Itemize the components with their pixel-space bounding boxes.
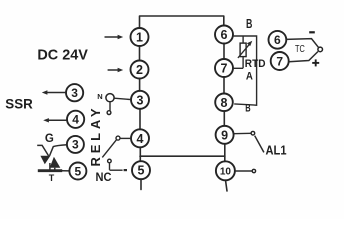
wire: terminal 8 to terminal 9	[223, 111, 225, 126]
SSR output terminal 4	[67, 111, 84, 128]
terminal 2	[131, 61, 149, 79]
wire: stub below terminal 10	[226, 180, 228, 191]
AL1 lower contact ring	[252, 169, 255, 172]
wire: terminal 3 to terminal 4	[139, 109, 141, 130]
svg-text:TC: TC	[295, 44, 305, 55]
wire: terminal 10 to AL1 contact	[235, 170, 252, 172]
svg-text:3: 3	[137, 93, 144, 107]
svg-text:9: 9	[221, 128, 228, 142]
wire: terminal 2 to terminal 3	[139, 79, 141, 92]
wire: top link terminal 1 to terminal 6	[140, 16, 224, 28]
svg-text:7: 7	[221, 62, 228, 76]
SCR cathode bar	[38, 169, 62, 172]
wire: thermocouple positive lead	[289, 52, 318, 62]
wire: RTD element top lead	[242, 36, 244, 43]
arrow: DC supply into terminal 2	[108, 68, 124, 73]
SCR symbol triangle left	[40, 156, 50, 164]
SCR symbol triangle right	[50, 157, 61, 168]
relay pivot contact	[116, 136, 120, 140]
SSR output terminal 3	[66, 84, 83, 101]
svg-text:2: 2	[136, 63, 143, 77]
wire: RTD element bottom lead	[242, 57, 244, 69]
RTD variable arrow	[238, 41, 252, 58]
terminal 4	[131, 129, 149, 147]
wire: stub below terminal 5	[140, 179, 142, 190]
svg-text:5: 5	[75, 164, 82, 178]
wire: SCR cathode to circle 5	[62, 170, 70, 172]
NO fixed contact dot	[107, 111, 111, 115]
svg-text:4: 4	[137, 132, 144, 146]
wire: terminal 9 to terminal 10	[224, 144, 226, 162]
thermocouple terminal 7	[271, 52, 289, 70]
wire: SCR center lead	[49, 163, 51, 170]
wire: terminal 9 to AL1 contact	[234, 132, 251, 134]
label plus	[312, 59, 319, 66]
svg-text:G: G	[45, 133, 54, 145]
svg-text:10: 10	[220, 166, 232, 177]
label minus	[309, 31, 315, 33]
svg-text:4: 4	[72, 113, 79, 127]
terminal 7	[215, 59, 233, 77]
arrow: SSR drive from terminal 3	[42, 90, 66, 94]
terminal 3	[131, 91, 149, 109]
SCR gate terminal 3	[67, 136, 84, 153]
terminal 8	[215, 94, 233, 112]
svg-text:3: 3	[72, 138, 79, 152]
svg-text:B: B	[245, 103, 251, 115]
wire: SCR anode lead to circle 3	[50, 145, 67, 156]
svg-text:A: A	[246, 70, 253, 82]
svg-text:3: 3	[71, 86, 78, 100]
AL1 switch blade	[255, 136, 264, 153]
svg-text:AL1: AL1	[266, 142, 287, 157]
terminal 6	[215, 26, 233, 44]
svg-text:SSR: SSR	[5, 95, 33, 111]
svg-text:6: 6	[274, 33, 281, 47]
svg-text:NC: NC	[96, 172, 112, 184]
wire: terminal 1 to terminal 2	[139, 46, 141, 61]
wire: terminal 7 to RTD A lead	[233, 67, 243, 69]
svg-text:T: T	[49, 173, 55, 183]
wire: NO contact to terminal 3	[114, 98, 131, 99]
wire: terminal 7 to terminal 8	[223, 77, 225, 94]
svg-text:RTD: RTD	[245, 58, 266, 70]
svg-text:B: B	[246, 17, 252, 31]
wire: terminal 6 to terminal 7	[223, 43, 225, 59]
RTD sensor box	[234, 36, 257, 105]
wire: SCR lower lead	[54, 168, 56, 171]
svg-text:DC 24V: DC 24V	[37, 47, 88, 64]
wire: cross link (left column to right column)	[140, 155, 225, 157]
arrow: DC supply into terminal 1	[105, 35, 124, 40]
svg-text:1: 1	[136, 31, 143, 45]
wire: NC dash near terminal 5	[124, 169, 127, 171]
arrow: SSR drive from terminal 4	[43, 118, 67, 122]
wire: NO contact stem	[109, 102, 111, 111]
wire: terminal 4 to terminal 5	[139, 147, 141, 161]
terminal 1	[131, 28, 149, 46]
svg-text:RELAY: RELAY	[88, 105, 103, 167]
thermocouple terminal 6	[269, 31, 287, 49]
terminal 9	[216, 126, 234, 144]
thermocouple junction	[318, 47, 323, 52]
RTD element body	[240, 43, 246, 57]
wire: thermocouple negative lead	[286, 39, 318, 48]
NC fixed contact dot	[108, 159, 112, 163]
terminal 5	[132, 161, 150, 179]
wire: NC contact stem	[109, 163, 111, 170]
svg-text:7: 7	[276, 54, 283, 68]
svg-text:5: 5	[138, 164, 145, 178]
AL1 contact ring	[251, 131, 255, 135]
wire: relay common from terminal 4	[120, 137, 131, 139]
wire: NC contact to terminal 5	[110, 169, 123, 171]
svg-text:N: N	[97, 92, 102, 101]
svg-text:8: 8	[221, 96, 228, 110]
terminal 10	[216, 161, 235, 180]
SCR terminal 5	[69, 163, 86, 180]
svg-text:6: 6	[221, 28, 228, 42]
NO contact ring	[106, 94, 114, 102]
wire: SCR gate lead	[37, 145, 48, 156]
relay switch blade	[102, 140, 116, 158]
